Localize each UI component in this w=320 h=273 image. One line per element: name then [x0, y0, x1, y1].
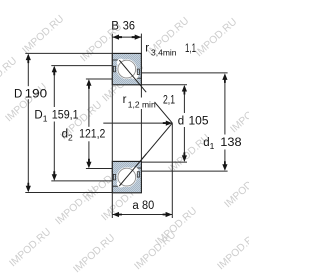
a left arrow — [113, 212, 123, 217]
d top extension line — [141, 84, 187, 86]
D bottom arrow — [26, 183, 31, 193]
D1 top arrow — [52, 66, 57, 76]
svg-text:r: r — [145, 43, 149, 55]
D1 dimension line — [53, 67, 55, 107]
lower section ring boundary lines — [112, 185, 120, 187]
svg-text:1,1: 1,1 — [185, 43, 196, 55]
svg-text:B: B — [111, 21, 119, 33]
D1 top extension line — [51, 65, 112, 67]
B right arrow — [132, 35, 142, 40]
svg-text:190: 190 — [25, 89, 48, 101]
bearing upper section rings fill — [112, 53, 141, 84]
axis arrow at pressure centre — [163, 121, 173, 126]
svg-text:80: 80 — [142, 200, 154, 212]
svg-text:1,2 min: 1,2 min — [128, 100, 156, 110]
d2 top arrow — [86, 79, 91, 89]
d bottom extension line — [141, 161, 187, 163]
D dimension line — [27, 55, 29, 86]
d1 bottom extension line — [141, 170, 227, 172]
contact angle line through upper ball — [119, 60, 146, 92]
d dimension line — [183, 86, 185, 113]
d1 bottom arrow — [222, 161, 227, 171]
d top arrow — [182, 85, 187, 95]
cage bracket left (lower) — [113, 174, 115, 180]
svg-text:2,1: 2,1 — [163, 95, 175, 107]
upper section outline — [112, 53, 141, 84]
D top extension line — [25, 52, 112, 54]
a-dim right extension line from pressure centre — [171, 123, 173, 218]
bearing axis line — [103, 122, 171, 124]
svg-text:121,2: 121,2 — [79, 129, 105, 141]
cage bracket right (lower) — [137, 172, 139, 177]
B dimension line — [112, 36, 141, 38]
ball (lower section) — [118, 168, 136, 186]
svg-text:105: 105 — [189, 116, 209, 128]
d2 bottom arrow — [86, 159, 91, 169]
svg-text:d: d — [178, 116, 184, 128]
upper section groove white gap — [117, 59, 137, 79]
d1 top arrow — [222, 73, 227, 83]
D1 bottom arrow — [52, 171, 57, 181]
svg-text:a: a — [132, 200, 139, 212]
d2 dimension line — [88, 80, 90, 127]
a dimension line — [112, 214, 172, 216]
D bottom extension line — [25, 192, 112, 194]
left face extension line (B, a dims) — [111, 34, 113, 218]
upper section ring boundary lines — [112, 59, 120, 61]
d1 top extension line — [141, 72, 227, 74]
a right arrow — [163, 212, 173, 217]
d2 top extension line — [86, 78, 112, 80]
d2 bottom extension line — [86, 168, 112, 170]
B left arrow — [113, 35, 123, 40]
svg-text:3,4min: 3,4min — [151, 48, 177, 58]
cage bracket left (upper) — [113, 66, 115, 72]
svg-text:36: 36 — [123, 21, 135, 33]
d1 dimension line — [224, 75, 226, 135]
lower section outline — [112, 161, 141, 192]
contact angle line through lower ball — [119, 154, 146, 186]
svg-text:D: D — [14, 89, 22, 101]
D1 bottom extension line — [51, 180, 112, 182]
ball (upper section) — [118, 60, 136, 78]
cage bracket right (upper) — [137, 69, 139, 74]
lower section groove white gap — [117, 167, 137, 187]
d bottom arrow — [182, 152, 187, 162]
svg-text:r: r — [123, 94, 127, 106]
right face extension line (B dim, through bore gap) — [140, 34, 142, 98]
lower pressure-cone line (bottom section corner to convergence point) — [141, 123, 172, 160]
bearing lower section rings fill — [112, 161, 141, 192]
svg-text:138: 138 — [220, 137, 241, 149]
svg-text:159,1: 159,1 — [52, 109, 79, 121]
D top arrow — [26, 54, 31, 64]
upper pressure-cone line (to convergence point) — [155, 102, 173, 123]
